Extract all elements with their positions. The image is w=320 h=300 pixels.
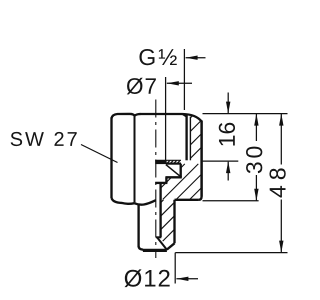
stem bottom-left chamfer arc: [139, 246, 144, 249]
label O12: [125, 269, 170, 287]
dim48 upper arrowhead: [279, 114, 283, 126]
dim48 line lower: [280, 200, 282, 253]
hex bottom left scallop: [112, 198, 135, 204]
dim30 line lower: [255, 175, 257, 201]
dim48 line upper: [280, 114, 282, 165]
thread end line: [155, 159, 181, 161]
dim30 lower arrowhead: [254, 189, 258, 201]
hex top edge dip at face line: [131, 114, 141, 116]
dim48 lower arrowhead: [279, 241, 283, 253]
O12 arrow tail: [176, 278, 198, 280]
label 30 (rotated): [246, 147, 262, 174]
label G1/2: [139, 49, 176, 65]
dim30 upper arrowhead: [254, 114, 258, 126]
label O7: [127, 78, 156, 95]
stem bottom-right chamfer: [167, 243, 175, 249]
dim16 upper tail: [227, 93, 229, 114]
G1/2 arrow tail: [186, 57, 206, 59]
thread major diameter line: [189, 117, 191, 161]
hex top-right chamfer arc: [183, 114, 202, 122]
O12 arrowhead: [176, 277, 188, 281]
stem right edge: [173, 200, 175, 244]
label SW 27: [11, 132, 77, 146]
thread bottom face inner: [155, 161, 166, 165]
top extension line: [203, 113, 288, 115]
label 16 (rotated): [219, 123, 235, 146]
hex top edge left face: [112, 114, 131, 118]
hex right edge: [200, 121, 203, 197]
G1/2 thread bore wall: [185, 115, 187, 160]
dim16 lower tail: [227, 162, 229, 181]
O7 arrowhead: [167, 81, 179, 85]
hatching: mid body: [161, 183, 166, 188]
thread runout ticks: [167, 160, 170, 163]
dim30 line upper: [255, 114, 257, 141]
step face 1: [165, 176, 181, 178]
step face 2: [155, 182, 167, 184]
O7 arrow tail: [167, 82, 192, 84]
stem bottom face: [143, 249, 167, 252]
bottom countersink cone: [157, 238, 167, 250]
O12 extension line: [174, 253, 176, 284]
small bore wall: [159, 183, 161, 237]
hole 7 wall: [165, 177, 167, 183]
dim16 lower arrowhead: [226, 161, 230, 173]
O7 extension line: [165, 77, 167, 160]
hatching: thread wall band: [190, 115, 193, 118]
G1/2 arrowhead: [186, 56, 198, 60]
SW 27 leader line: [81, 145, 118, 163]
thread depth extension line: [202, 160, 239, 162]
section shoulder: [175, 199, 199, 201]
bottom extension line: [175, 252, 287, 254]
bore end tick: [156, 236, 162, 238]
top face: [140, 113, 183, 115]
center line / part axis: [155, 100, 157, 259]
hex left edge: [110, 118, 112, 199]
stem left edge: [137, 204, 139, 247]
recess wall: [180, 164, 182, 178]
thread bottom face outer: [167, 163, 182, 165]
cone below thread: [166, 165, 181, 177]
section shoulder corner arc: [199, 197, 202, 200]
thread entry countersink: [183, 114, 187, 117]
dim16 upper arrowhead: [226, 102, 230, 114]
G1/2 extension line: [183, 49, 185, 110]
hex left face line: [134, 115, 136, 203]
hex bottom mid scallop: [135, 200, 156, 204]
label 48 (rotated): [269, 168, 285, 197]
hex bottom extension line: [203, 200, 259, 202]
hatching: stem wall: [161, 200, 164, 203]
